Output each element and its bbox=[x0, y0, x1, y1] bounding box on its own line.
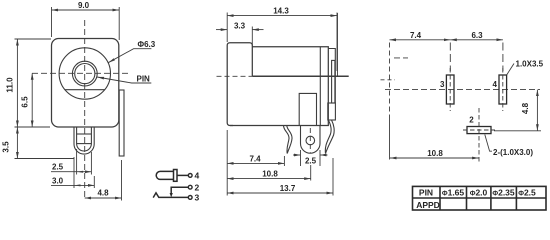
svg-text:6.3: 6.3 bbox=[471, 31, 483, 40]
slot 4 centerline bbox=[502, 68, 504, 111]
svg-text:3.5: 3.5 bbox=[2, 141, 11, 153]
svg-text:1.0X3.5: 1.0X3.5 bbox=[516, 60, 544, 69]
dimension 2.5 (tab inner) bbox=[51, 149, 91, 175]
svg-text:2.5: 2.5 bbox=[305, 157, 317, 166]
label PIN leader bbox=[97, 77, 151, 83]
slot 4 pad bbox=[499, 75, 507, 104]
svg-text:7.4: 7.4 bbox=[249, 154, 261, 163]
dimension 9.0 bbox=[52, 7, 120, 40]
slot 3 pad bbox=[446, 75, 454, 104]
dimension 7.4 (right) bbox=[390, 39, 451, 41]
svg-text:7.4: 7.4 bbox=[410, 31, 422, 40]
right leg (wavy pin) bbox=[325, 120, 334, 154]
svg-text:4.8: 4.8 bbox=[97, 189, 109, 198]
tab fold line 2 bbox=[77, 143, 92, 145]
terminal 4 bbox=[188, 174, 192, 178]
leader 1.0X3.5 bbox=[507, 64, 514, 76]
dimension 3.0 left arrowhead bbox=[74, 184, 81, 186]
terminal 3 bbox=[188, 196, 192, 200]
outer boss circle bbox=[59, 48, 110, 99]
svg-text:APPD: APPD bbox=[416, 200, 440, 210]
vertical centerline bbox=[84, 20, 86, 199]
svg-text:3: 3 bbox=[195, 193, 200, 203]
svg-text:6.5: 6.5 bbox=[21, 96, 30, 108]
svg-text:2: 2 bbox=[469, 116, 474, 125]
chord line bbox=[65, 89, 105, 91]
leader 2-(1.0X3.0) bbox=[485, 135, 492, 152]
slot 2 pad bbox=[467, 127, 491, 134]
lock tab extension tick for 10.8 bbox=[310, 165, 312, 181]
tab fold line 1 bbox=[77, 133, 92, 135]
svg-text:PIN: PIN bbox=[137, 75, 151, 84]
svg-text:4: 4 bbox=[493, 80, 498, 89]
dimension 2.5 (middle tab) bbox=[293, 150, 328, 166]
svg-text:4.8: 4.8 bbox=[521, 102, 530, 114]
label Φ6.3 leader bbox=[108, 49, 151, 63]
slot 3 centerline bbox=[449, 68, 451, 111]
svg-text:10.8: 10.8 bbox=[427, 149, 443, 158]
back plate bbox=[332, 60, 335, 103]
ring outer circle bbox=[72, 61, 97, 86]
horizontal centerline bbox=[32, 72, 128, 74]
svg-text:Φ6.3: Φ6.3 bbox=[138, 40, 156, 49]
label Φ6.3 leader arrowhead bbox=[108, 58, 115, 63]
ring inner circle bbox=[75, 64, 95, 84]
lock tab centerline bbox=[309, 128, 311, 153]
horizontal centerline (right view) bbox=[385, 88, 540, 90]
wire pin4 bbox=[177, 174, 188, 176]
svg-text:13.7: 13.7 bbox=[280, 184, 296, 193]
svg-text:3.0: 3.0 bbox=[52, 176, 64, 185]
table grid bbox=[413, 186, 547, 210]
dimension 11.0 bbox=[15, 39, 52, 127]
axis centerline dashed bbox=[217, 75, 253, 77]
outline dash left cross bbox=[381, 79, 396, 81]
contact arrowhead bbox=[170, 193, 173, 197]
dimension 14.3 bbox=[227, 13, 337, 72]
wire pin3 with spring contact bbox=[153, 193, 188, 198]
center pin (sticking out back) bbox=[252, 75, 348, 77]
svg-text:10.8: 10.8 bbox=[262, 170, 278, 179]
dimension 4.8 (right) bbox=[494, 90, 541, 131]
back cap bbox=[328, 49, 335, 104]
wire pin2 with contact arrow bbox=[171, 187, 188, 194]
svg-text:2: 2 bbox=[195, 182, 200, 192]
lock tab (round) bbox=[301, 126, 321, 154]
dimension 3.0 (tab outer) bbox=[51, 157, 94, 188]
board edge solid left bbox=[389, 118, 391, 160]
svg-text:11.0: 11.0 bbox=[6, 77, 15, 93]
svg-text:9.0: 9.0 bbox=[78, 1, 90, 10]
dimension 3.3 bbox=[216, 27, 264, 46]
dimension 6.5 bbox=[31, 73, 33, 127]
bottom pin tab outer bbox=[74, 127, 94, 155]
internal line back bbox=[319, 47, 321, 126]
dimension 7.4 (middle) bbox=[227, 130, 284, 196]
flange outline (side view) bbox=[227, 43, 252, 126]
board edge dashed left bbox=[389, 43, 391, 119]
side tab (switch terminal) bbox=[328, 103, 336, 120]
dimension 13.7 bbox=[227, 158, 333, 196]
extension slot3 bbox=[449, 43, 451, 72]
slot 2 centerline vertical bbox=[478, 108, 480, 162]
slot 2 centerline horizontal bbox=[463, 129, 495, 131]
lock tab hole bbox=[306, 136, 315, 145]
dimension 10.8 (right) bbox=[390, 157, 479, 159]
dimension 4.8 bbox=[85, 160, 122, 201]
svg-text:14.3: 14.3 bbox=[273, 7, 289, 16]
dimension 3.5 bbox=[15, 127, 75, 159]
bottom pin tab inner bbox=[77, 127, 92, 152]
svg-text:3.3: 3.3 bbox=[234, 22, 246, 31]
dimension 10.8 (middle) bbox=[227, 178, 311, 180]
plug tip bar bbox=[174, 170, 178, 182]
body outline (front) bbox=[52, 39, 119, 128]
dimension 2.5 left arrowhead bbox=[77, 171, 84, 173]
plug barrel bbox=[156, 171, 173, 179]
dimension 6.3 (right) bbox=[450, 39, 503, 41]
svg-text:PIN: PIN bbox=[419, 188, 433, 198]
back edge line bbox=[337, 13, 339, 76]
extension slot4 bbox=[502, 43, 504, 72]
label PIN leader arrowhead bbox=[97, 77, 104, 80]
svg-text:3: 3 bbox=[440, 80, 445, 89]
svg-text:4: 4 bbox=[195, 171, 200, 181]
left leg (wavy pin) bbox=[284, 126, 293, 154]
svg-text:2.5: 2.5 bbox=[52, 163, 64, 172]
side tab strip (right) bbox=[119, 90, 124, 156]
svg-text:2-(1.0X3.0): 2-(1.0X3.0) bbox=[493, 148, 533, 157]
body outline (side view) bbox=[230, 47, 328, 126]
notch window bbox=[299, 93, 316, 125]
outline dashes top bbox=[394, 57, 408, 59]
terminal 2 bbox=[188, 185, 192, 189]
